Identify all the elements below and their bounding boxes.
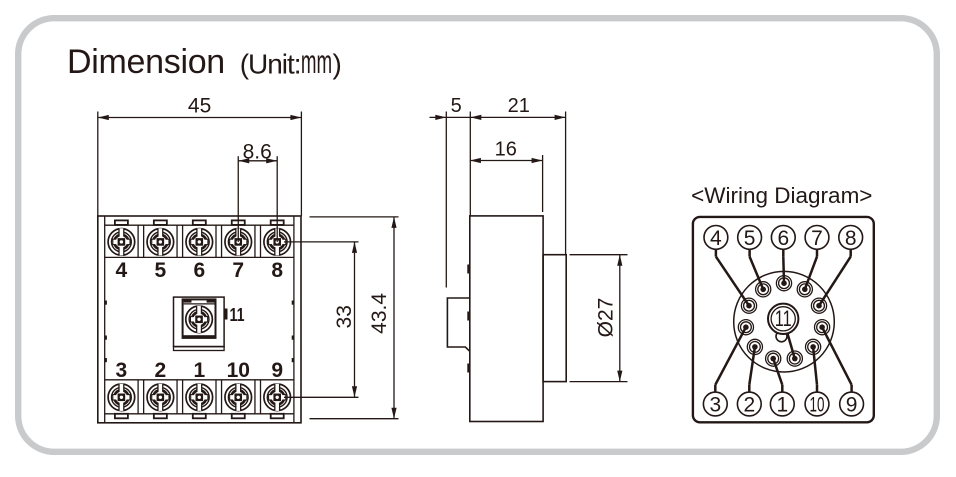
svg-text:2: 2 (743, 394, 755, 417)
svg-text:6: 6 (777, 227, 789, 250)
svg-text:33: 33 (333, 305, 356, 328)
svg-text:1: 1 (193, 359, 205, 382)
svg-text:10: 10 (810, 393, 825, 417)
svg-text:10: 10 (227, 359, 250, 382)
svg-text:Dimension: Dimension (67, 43, 225, 81)
svg-text:1: 1 (776, 394, 788, 417)
svg-text:2: 2 (155, 359, 167, 382)
svg-text:8: 8 (271, 259, 283, 282)
svg-text:43.4: 43.4 (368, 293, 391, 334)
svg-text:4: 4 (116, 259, 128, 282)
svg-text:11: 11 (775, 307, 792, 332)
svg-text:9: 9 (271, 359, 283, 382)
svg-text:5: 5 (155, 259, 167, 282)
svg-text:5: 5 (744, 227, 756, 250)
svg-text:4: 4 (710, 227, 722, 250)
svg-text:Ø27: Ø27 (594, 298, 617, 338)
svg-text:3: 3 (709, 394, 721, 417)
svg-text:mm: mm (301, 42, 332, 80)
svg-text:7: 7 (232, 259, 244, 282)
svg-text:11: 11 (230, 305, 245, 325)
svg-text:9: 9 (846, 394, 858, 417)
svg-text:3: 3 (116, 359, 128, 382)
svg-text:45: 45 (188, 94, 211, 117)
svg-text:8.6: 8.6 (243, 140, 272, 163)
svg-text:8: 8 (845, 227, 857, 250)
svg-text:(Unit:: (Unit: (240, 48, 301, 79)
svg-text:<Wiring Diagram>: <Wiring Diagram> (691, 183, 872, 208)
svg-text:16: 16 (495, 138, 517, 160)
svg-text:7: 7 (811, 227, 823, 250)
svg-text:21: 21 (508, 95, 530, 117)
svg-text:5: 5 (451, 95, 462, 117)
svg-text:): ) (333, 48, 342, 79)
svg-text:6: 6 (193, 259, 205, 282)
